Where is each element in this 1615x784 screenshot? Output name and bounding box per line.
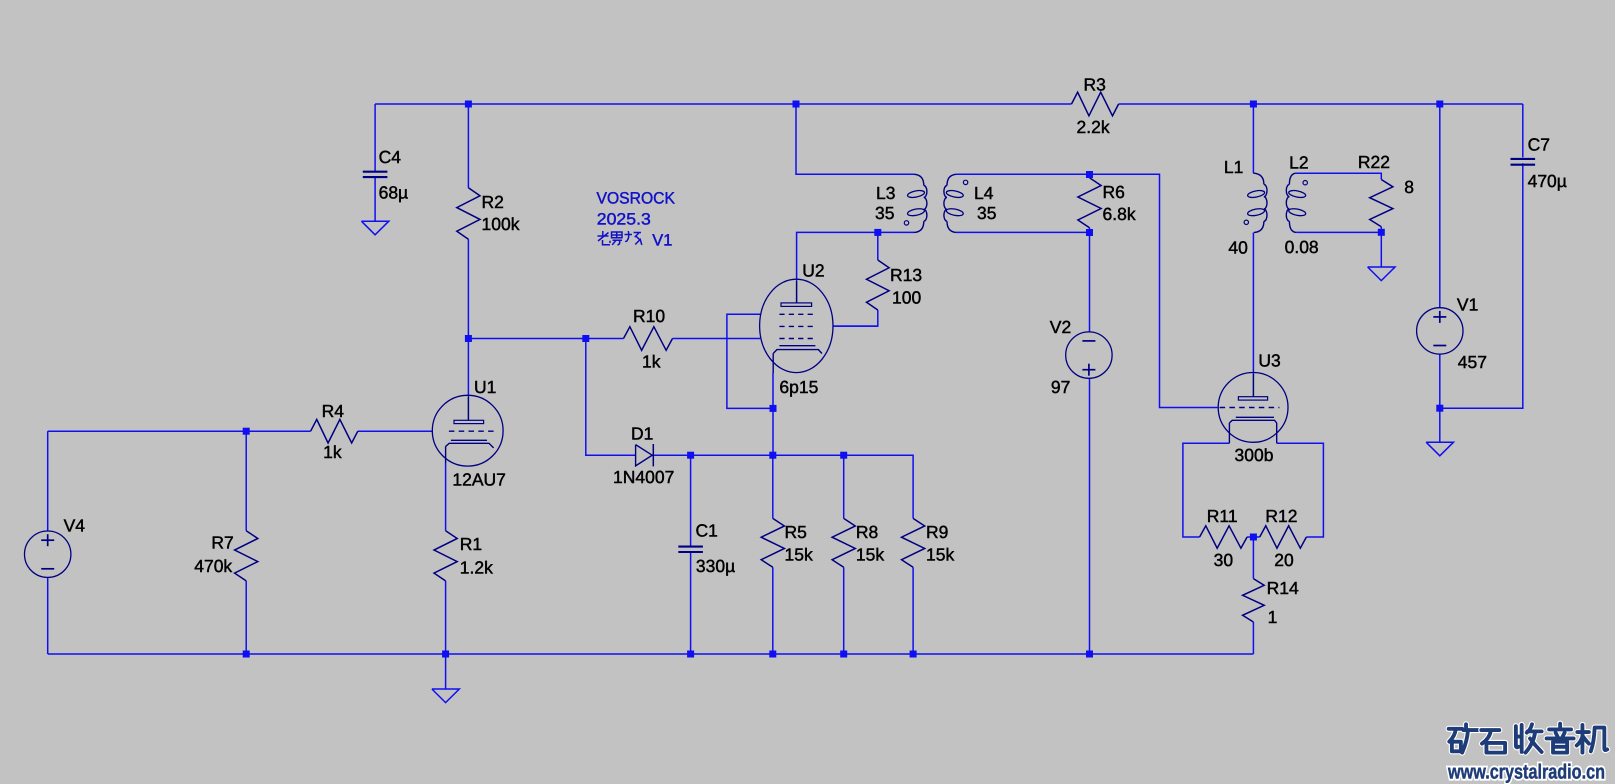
svg-text:R4: R4 [322,401,345,421]
svg-text:C7: C7 [1528,134,1550,154]
wire R9 bottom lead [912,567,914,654]
svg-text:470k: 470k [194,556,232,576]
svg-text:15k: 15k [926,545,954,565]
wire V2 top lead [1089,232,1091,332]
wire R8 bottom lead [843,567,845,654]
node junction 9 [1086,171,1093,178]
svg-text:R9: R9 [926,522,948,542]
wire R14 top lead [1252,537,1254,579]
wire D1 cathode row [653,455,913,518]
wire R10 to U2 grid [673,338,761,340]
node junction 7 [243,428,250,435]
svg-text:1k: 1k [642,351,661,371]
svg-text:L4: L4 [974,183,994,203]
wire U1 plate node row [468,338,623,340]
resistor R4 [311,419,358,443]
wire L4 bottom to R6 bottom [956,231,1089,233]
node junction 8 [874,229,881,236]
wire R8 top lead [843,455,845,518]
svg-text:R2: R2 [482,192,504,212]
resistor R13 [867,260,890,310]
ground under R1 [432,689,459,703]
svg-text:R3: R3 [1084,75,1106,95]
wire U3 cathode left [1183,443,1230,537]
wire L3 bottom to U2 plate [797,232,914,279]
triode U1 [432,395,503,466]
svg-text:L2: L2 [1289,153,1308,173]
svg-text:U3: U3 [1258,351,1280,371]
wire R5 bottom lead [772,567,774,654]
capacitor C4 [363,171,388,173]
wire C4 branch [374,104,376,171]
svg-text:0.08: 0.08 [1285,237,1319,257]
wire C4 to ground [374,177,376,221]
resistor R12 [1260,526,1307,548]
svg-text:470µ: 470µ [1528,171,1567,191]
wire C7 top lead [1522,104,1524,157]
svg-text:6p15: 6p15 [779,377,818,397]
svg-text:C4: C4 [379,147,402,167]
svg-text:6.8k: 6.8k [1103,204,1136,224]
svg-text:U2: U2 [802,261,824,281]
svg-text:R5: R5 [785,522,807,542]
svg-text:L3: L3 [876,183,895,203]
svg-text:15k: 15k [785,545,813,565]
resistor R3 [1072,92,1119,116]
inductor L2 [1289,173,1296,184]
inductor L3 [914,174,924,185]
svg-text:R1: R1 [460,534,482,554]
node junction 17 [1436,405,1443,412]
svg-text:8: 8 [1404,177,1414,197]
svg-text:R8: R8 [856,522,878,542]
wire C1 top lead [690,455,692,546]
wire R1 bottom lead [445,581,447,654]
wire R7 top lead [245,431,247,531]
wire L1 top lead [1252,104,1254,173]
svg-text:R13: R13 [890,265,922,285]
wire R1 node to ground [445,654,447,689]
node junction 3 [1250,101,1257,108]
svg-text:R12: R12 [1265,506,1297,526]
ground under V1 [1426,442,1453,456]
resistor R9 [902,518,925,567]
node junction 15 [840,452,847,459]
node junction 10 [1086,229,1093,236]
wire V2 bottom lead [1089,378,1091,654]
wire bottom rail [48,653,1254,655]
resistor R1 [434,531,457,581]
svg-text:97: 97 [1051,377,1070,397]
svg-text:100k: 100k [482,214,520,234]
svg-text:D1: D1 [631,424,653,444]
capacitor C1 [678,546,703,548]
wire R6 bottom lead [1089,228,1091,233]
svg-text:V1: V1 [652,231,672,249]
svg-text:V2: V2 [1050,317,1071,337]
resistor R11 [1200,526,1248,548]
node junction 2 [793,101,800,108]
resistor R14 [1243,579,1265,622]
wire V1 bottom lead [1439,354,1441,408]
resistor R2 [457,188,480,239]
wire V1 node to ground [1439,408,1441,442]
wire U1 cathode to R1 [445,463,447,531]
wire V4 top lead [47,431,49,531]
svg-text:35: 35 [875,203,894,223]
node junction 18 [243,651,250,658]
wire R22 node to ground [1380,232,1382,267]
svg-text:V4: V4 [64,515,86,535]
wire R4 to U1 grid [358,430,433,432]
wire R14 bottom lead [1252,622,1254,654]
svg-text:2.2k: 2.2k [1077,117,1110,137]
svg-text:R14: R14 [1267,578,1299,598]
svg-text:35: 35 [977,203,996,223]
node junction 4 [1436,101,1443,108]
wire U2 suppressor tie [727,314,773,408]
ground under C4 [361,221,388,235]
node junction 5 [465,335,472,342]
resistor R7 [235,531,258,581]
svg-text:L1: L1 [1224,157,1243,177]
voltage source V4 [25,531,71,577]
node junction 24 [1086,651,1093,658]
watermark 矿石收音机 [1449,724,1608,753]
node junction 11 [1378,229,1385,236]
resistor R8 [832,518,855,567]
wire U2 screen lead [833,325,878,327]
svg-text:20: 20 [1274,550,1294,570]
svg-text:C1: C1 [696,520,718,540]
wire node to D1 anode [586,339,636,456]
label 老男孩 V1 [598,231,642,245]
node junction 13 [687,452,694,459]
inductor L1 [1253,173,1264,184]
svg-text:15k: 15k [856,545,884,565]
wire V4 bottom lead [47,577,49,654]
wire grid row V4 to R4 [48,430,311,432]
svg-text:1.2k: 1.2k [460,558,493,578]
voltage source V1 [1417,308,1463,354]
svg-text:R22: R22 [1358,152,1390,172]
svg-text:40: 40 [1228,237,1248,257]
svg-text:1: 1 [1268,607,1278,627]
node junction 21 [769,651,776,658]
wire R7 bottom lead [245,581,247,654]
node junction 22 [840,651,847,658]
wire L2 bottom to R22 bottom [1296,231,1381,233]
capacitor C7 [1511,158,1536,160]
ground under R22 [1368,267,1395,281]
svg-text:R10: R10 [633,306,665,326]
svg-text:www.crystalradio.cn: www.crystalradio.cn [1447,761,1605,784]
svg-text:330µ: 330µ [696,556,735,576]
inductor L4 [947,174,956,185]
wire U1 plate lead [467,339,469,396]
node junction 23 [910,651,917,658]
wire R22 bottom lead [1380,227,1382,233]
wire top rail left segment [375,103,1071,105]
svg-text:R11: R11 [1207,506,1238,526]
svg-text:457: 457 [1458,352,1487,372]
svg-text:V1: V1 [1457,295,1478,315]
wire R13 top lead [877,232,879,260]
triode U3 [1218,373,1288,443]
svg-text:68µ: 68µ [379,183,409,203]
wire R13 bottom to U2 screen [834,310,878,326]
svg-text:30: 30 [1214,550,1234,570]
resistor R22 [1370,180,1393,227]
voltage source V2 [1066,332,1112,378]
svg-text:100: 100 [892,287,921,307]
svg-text:12AU7: 12AU7 [452,469,506,489]
node junction 12 [770,405,777,412]
node junction 16 [1250,534,1257,541]
wire R2 bottom lead [467,239,469,338]
wire U2 cathode lead [772,373,774,455]
wire R5 top lead [772,455,774,518]
svg-text:1k: 1k [323,442,342,462]
wire C1 bottom lead [690,552,692,654]
wire L2 top to R22 [1296,173,1381,179]
svg-text:VOSROCK: VOSROCK [597,190,676,208]
svg-text:1N4007: 1N4007 [613,467,674,487]
wire plate rail to L3 [796,104,914,174]
svg-text:2025.3: 2025.3 [597,211,651,229]
node junction 14 [769,452,776,459]
pentode U2 [760,279,833,372]
svg-text:300b: 300b [1235,445,1274,465]
node junction 19 [442,651,449,658]
wire R12 left lead [1253,536,1259,538]
svg-text:R7: R7 [211,532,233,552]
wire R6 top lead [1089,174,1091,178]
resistor R10 [624,327,673,351]
svg-text:R6: R6 [1103,182,1125,202]
resistor R6 [1078,178,1101,228]
wire R11 right lead [1247,536,1253,538]
node junction 1 [465,101,472,108]
wire L1 to U3 plate [1252,233,1254,373]
node junction 6 [582,335,589,342]
wire C7 bottom to V1 node [1440,163,1523,408]
wire R2 top lead [467,104,469,188]
wire V1 top lead [1439,104,1441,308]
diode D1 [636,445,653,466]
node junction 20 [687,651,694,658]
wire L4 top to R6 [956,173,1089,175]
wire top rail right segment [1119,103,1523,105]
wire U3 cathode right [1277,443,1324,537]
resistor R5 [761,518,784,567]
svg-text:U1: U1 [474,377,496,397]
wire R6 to U3 grid [1090,174,1219,407]
